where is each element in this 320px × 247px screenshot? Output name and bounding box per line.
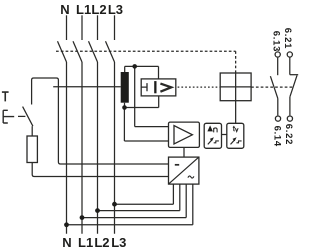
svg-text:L1: L1 (76, 2, 91, 17)
svg-text:L2: L2 (94, 235, 109, 247)
svg-text:L3: L3 (108, 2, 123, 17)
svg-text:L1: L1 (78, 235, 93, 247)
svg-text:6.14: 6.14 (271, 126, 282, 147)
svg-text:L2: L2 (91, 2, 106, 17)
svg-text:N: N (60, 2, 69, 17)
svg-text:L3: L3 (111, 235, 126, 247)
svg-text:6.22: 6.22 (283, 124, 294, 145)
svg-text:6.13: 6.13 (271, 31, 282, 52)
svg-text:6.21: 6.21 (282, 28, 293, 49)
svg-text:N: N (62, 235, 71, 247)
